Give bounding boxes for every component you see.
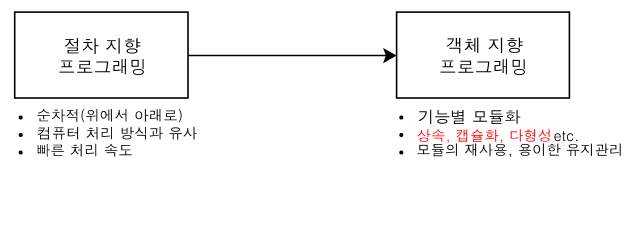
bullet left 3	[19, 151, 23, 155]
box: object-oriented programming (right)	[397, 12, 570, 98]
bullet left 1	[19, 116, 23, 120]
arrow shaft	[188, 55, 387, 57]
bullet left 2	[19, 133, 23, 137]
text list-left-2	[38, 127, 197, 140]
text list-right-2	[417, 129, 577, 143]
text list-left-1	[37, 109, 181, 122]
text title-right-1	[447, 38, 523, 54]
bullet right 1	[399, 116, 403, 120]
arrow head	[383, 48, 397, 64]
bullet right 2	[399, 133, 403, 137]
text list-left-3	[38, 144, 132, 157]
text list-right-3	[417, 143, 620, 157]
text title-left-1	[65, 38, 141, 54]
text title-left-2	[59, 59, 143, 75]
text list-right-1	[419, 110, 521, 124]
box: procedural programming (left)	[15, 12, 188, 98]
bullet right 3	[399, 151, 403, 155]
text title-right-2	[441, 59, 526, 75]
